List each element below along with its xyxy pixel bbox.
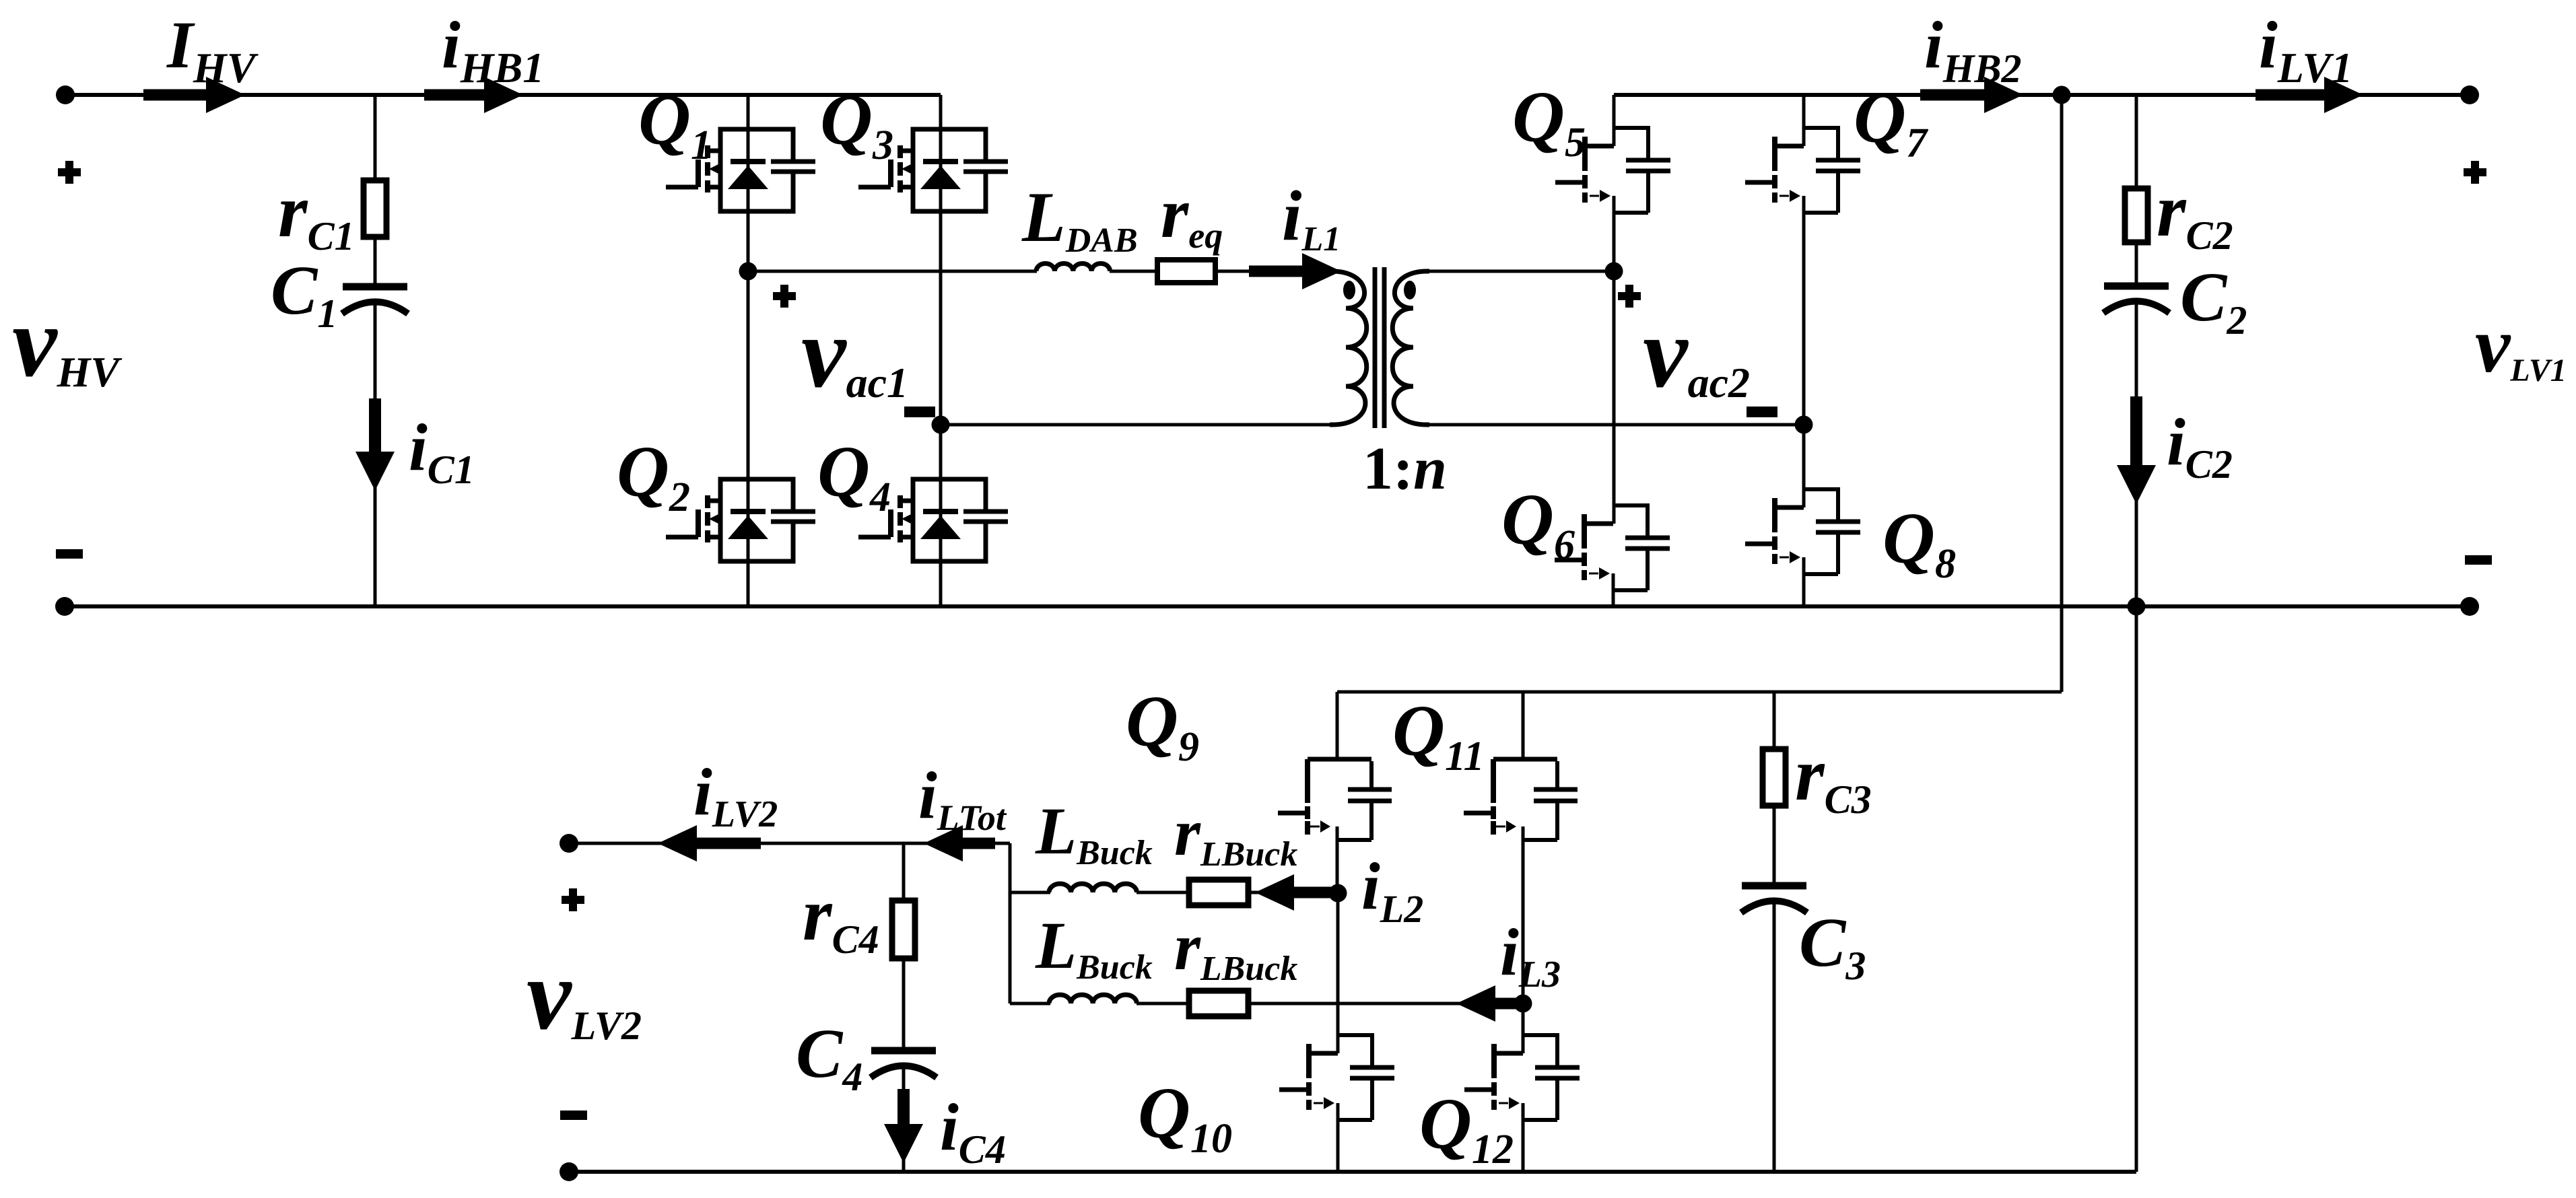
label i_C1 bbox=[409, 410, 475, 492]
wire vac1- to transformer bbox=[941, 423, 1340, 427]
wire r_C4 to C_4 bbox=[902, 958, 906, 1048]
transistor Q11 bbox=[1464, 759, 1578, 840]
transistor Q4 bbox=[858, 479, 1008, 561]
wire r_C1 branch top bbox=[374, 95, 377, 180]
label Q3 bbox=[820, 80, 893, 168]
wire Q12 source to LV2 rail bbox=[1522, 1103, 1525, 1172]
label Q1 bbox=[638, 80, 712, 168]
label i_HB1 bbox=[442, 7, 544, 92]
label Q12 bbox=[1419, 1084, 1514, 1172]
label L_Buck 2 bbox=[1035, 908, 1153, 987]
wire LV2 top bbox=[569, 842, 1010, 845]
transistor Q5 bbox=[1555, 128, 1670, 213]
wire L_DAB to r_eq bbox=[1110, 270, 1157, 273]
transistor Q7 bbox=[1745, 128, 1860, 213]
node LV1 feed junction bbox=[2053, 86, 2071, 104]
label Q5 bbox=[1512, 77, 1586, 166]
resistor r_C3 bbox=[1763, 749, 1786, 806]
current arrow i_HB2 bbox=[1920, 77, 2023, 113]
current arrow i_C1 bbox=[355, 398, 395, 491]
label v_LV2 bbox=[527, 939, 642, 1051]
label r_C3 bbox=[1795, 733, 1872, 822]
wire Q8 source to bottom rail bbox=[1802, 557, 1806, 606]
capacitor C_4 bbox=[871, 1051, 937, 1078]
label v_LV1 bbox=[2475, 301, 2567, 389]
resistor r_eq bbox=[1157, 260, 1215, 283]
inductor L_Buck 1 bbox=[1049, 884, 1137, 892]
label i_HB2 bbox=[1924, 7, 2022, 91]
resistor r_C4 bbox=[892, 901, 915, 958]
label C_4 bbox=[796, 1015, 862, 1099]
node vac2+ junction bbox=[1605, 262, 1623, 281]
wire Q3 source through vac1- node to Q4 bbox=[939, 211, 943, 479]
wire Q6 source to bottom rail bbox=[1612, 573, 1615, 606]
wire r_C4 branch top bbox=[902, 843, 906, 901]
node HV+ input terminal bbox=[56, 85, 75, 104]
node vac1+ junction bbox=[739, 262, 757, 281]
wire top HV rail bbox=[65, 93, 941, 97]
label plus vac2 bbox=[1618, 285, 1641, 308]
wire node to Q2 drain bbox=[747, 271, 750, 479]
label 1:n bbox=[1363, 435, 1447, 502]
wire Q11 source to node iL3 bbox=[1522, 826, 1525, 1003]
transformer core bbox=[1375, 267, 1384, 428]
wire bottom common rail bbox=[65, 604, 2470, 608]
current arrow i_HB1 bbox=[424, 77, 523, 113]
node C2 branch to bottom rail junction bbox=[2128, 598, 2146, 616]
transformer secondary polarity dot bbox=[1404, 281, 1416, 299]
wire r_C3 to C_3 bbox=[1773, 806, 1776, 883]
node vac1- junction bbox=[932, 416, 950, 434]
node HV- input terminal bbox=[55, 597, 74, 616]
label Q8 bbox=[1883, 499, 1956, 587]
wire LV1- down to LV2 rail bbox=[569, 606, 2136, 1172]
label r_LBuck 1 bbox=[1174, 795, 1297, 874]
current arrow i_C2 bbox=[2117, 396, 2156, 504]
wire Q2 source to bottom rail bbox=[747, 561, 750, 606]
label plus vac1 bbox=[773, 285, 796, 308]
wire transformer to vac2+ bbox=[1427, 270, 1614, 273]
node iL3 junction bbox=[1514, 995, 1532, 1013]
label i_L3 bbox=[1500, 915, 1561, 995]
wire Q3 drain bbox=[939, 95, 943, 129]
label Q6 bbox=[1501, 480, 1575, 568]
label i_L2 bbox=[1361, 849, 1423, 931]
transistor Q12 bbox=[1464, 1035, 1580, 1120]
label Q7 bbox=[1854, 78, 1929, 166]
label r_C4 bbox=[803, 873, 879, 962]
label minus HV bbox=[56, 549, 83, 559]
wire Q7 drain bbox=[1802, 95, 1806, 146]
transistor Q8 bbox=[1745, 489, 1860, 574]
wire C_3 down to LV2 rail bbox=[1773, 901, 1776, 1172]
transistor Q3 bbox=[858, 129, 1008, 211]
resistor r_LBuck 2 bbox=[1189, 991, 1248, 1016]
label i_LTot bbox=[918, 758, 1007, 838]
inductor L_DAB bbox=[1036, 263, 1110, 271]
node LV1- output terminal bbox=[2460, 597, 2479, 616]
capacitor C_2 bbox=[2103, 286, 2169, 313]
wire Q5 drain bbox=[1613, 95, 1616, 146]
label minus LV2 bbox=[560, 1111, 587, 1120]
label i_LV2 bbox=[693, 754, 778, 835]
wire Q9 drain bbox=[1336, 692, 1339, 759]
label Q4 bbox=[817, 432, 891, 520]
wire r_C2 branch top bbox=[2135, 95, 2138, 188]
label Q2 bbox=[617, 432, 690, 520]
wire Q9 source to node iL2 bbox=[1336, 826, 1339, 893]
label plus LV2 bbox=[562, 888, 584, 911]
svg-text:1:n: 1:n bbox=[1363, 435, 1447, 502]
wire branch1 to L_Buck bbox=[1010, 891, 1050, 894]
node LV1+ output terminal bbox=[2460, 85, 2479, 104]
label Q9 bbox=[1126, 682, 1199, 770]
wire C_4 down to rail bbox=[902, 1065, 906, 1172]
transistor Q10 bbox=[1279, 1035, 1394, 1120]
label plus LV1 bbox=[2464, 161, 2486, 184]
label minus vac2 bbox=[1747, 407, 1777, 417]
wire Q10 source to LV2 rail bbox=[1336, 1103, 1340, 1172]
capacitor C_3 bbox=[1741, 886, 1807, 913]
transistor Q6 bbox=[1555, 505, 1670, 590]
label minus LV1 bbox=[2465, 555, 2492, 565]
wire Q1 source to node vac1+ bbox=[747, 211, 750, 271]
transistor Q2 bbox=[666, 479, 815, 561]
resistor r_LBuck 1 bbox=[1189, 880, 1248, 905]
current arrow i_L1 bbox=[1249, 253, 1341, 289]
node vac2- junction bbox=[1795, 416, 1813, 434]
current arrow i_C4 bbox=[884, 1089, 923, 1163]
label r_C1 bbox=[278, 170, 355, 258]
label Q11 bbox=[1392, 691, 1485, 779]
transformer primary winding bbox=[1330, 271, 1367, 425]
transistor Q1 bbox=[666, 129, 815, 211]
wire node to Q8 drain bbox=[1802, 425, 1806, 507]
wire Q1 drain bbox=[747, 95, 750, 129]
wire Q4 source to bottom rail bbox=[939, 561, 943, 606]
label r_eq bbox=[1161, 174, 1223, 256]
label r_C2 bbox=[2157, 169, 2233, 258]
current arrow i_LV1 bbox=[2256, 77, 2363, 113]
transformer secondary winding bbox=[1392, 271, 1429, 425]
wire node to Q10 drain bbox=[1336, 893, 1340, 1053]
label v_ac1 bbox=[801, 297, 908, 409]
resistor r_C1 bbox=[364, 180, 386, 237]
node LV2- output terminal bbox=[560, 1162, 578, 1181]
label i_L1 bbox=[1282, 176, 1341, 258]
wire C_1 down bbox=[374, 302, 377, 606]
node LV2+ output terminal bbox=[560, 834, 578, 853]
wire r_C1 to C_1 bbox=[374, 237, 377, 284]
label i_C4 bbox=[940, 1090, 1006, 1172]
current arrow i_L3 bbox=[1456, 985, 1518, 1022]
label L_Buck 1 bbox=[1035, 794, 1153, 872]
wire Q7 source to node vac2- bbox=[1802, 196, 1806, 425]
wire Q11 drain bbox=[1522, 692, 1525, 759]
node iL2 junction bbox=[1329, 884, 1347, 903]
wire branch2 to L_Buck bbox=[1010, 1002, 1050, 1006]
wire transformer to vac2- bbox=[1427, 423, 1804, 427]
wire C_2 down to rail bbox=[2135, 301, 2138, 606]
transformer primary polarity dot bbox=[1343, 281, 1355, 299]
label C_2 bbox=[2180, 258, 2247, 343]
wire Q5 source to node vac2+ bbox=[1613, 196, 1616, 271]
label I_HV bbox=[166, 7, 259, 92]
current arrow i_LTot bbox=[924, 825, 995, 861]
wire LV1+ down to buck rail bbox=[1337, 95, 2062, 692]
wire r_C3 branch top bbox=[1773, 692, 1776, 749]
label v_ac2 bbox=[1643, 297, 1750, 409]
wire node to Q12 drain bbox=[1522, 1003, 1525, 1053]
wire r_eq to arrow bbox=[1215, 270, 1279, 273]
wire top LV1 rail bbox=[1614, 93, 2470, 97]
wire r_LBuck2 to node iL3 bbox=[1248, 1002, 1523, 1006]
label i_C2 bbox=[2167, 404, 2233, 487]
wire vac1+ to L_DAB bbox=[748, 270, 1037, 273]
label C_1 bbox=[271, 252, 337, 336]
label i_LV1 bbox=[2259, 7, 2352, 92]
wire r_LBuck1 to node iL2 bbox=[1248, 891, 1338, 894]
label v_HV bbox=[12, 286, 123, 398]
wire r_C2 to C_2 bbox=[2135, 242, 2138, 283]
current arrow i_LV2 bbox=[658, 825, 761, 861]
label r_LBuck 2 bbox=[1174, 909, 1297, 988]
label minus vac1 bbox=[904, 407, 935, 417]
wire L_Buck1 to r_LBuck1 bbox=[1137, 891, 1189, 894]
wire LV2 corner vertical bbox=[1009, 843, 1012, 1003]
inductor L_Buck 2 bbox=[1049, 995, 1137, 1003]
label Q10 bbox=[1138, 1073, 1232, 1162]
capacitor C_1 bbox=[342, 287, 408, 314]
current arrow i_L2 bbox=[1255, 874, 1332, 911]
label L_DAB bbox=[1021, 178, 1138, 260]
current arrow I_HV bbox=[143, 77, 245, 113]
resistor r_C2 bbox=[2125, 188, 2148, 242]
wire L_Buck2 to r_LBuck2 bbox=[1137, 1002, 1189, 1006]
wire node to Q6 drain bbox=[1613, 271, 1616, 524]
transistor Q9 bbox=[1278, 759, 1392, 840]
label C_3 bbox=[1799, 904, 1866, 988]
label plus HV bbox=[58, 161, 81, 184]
